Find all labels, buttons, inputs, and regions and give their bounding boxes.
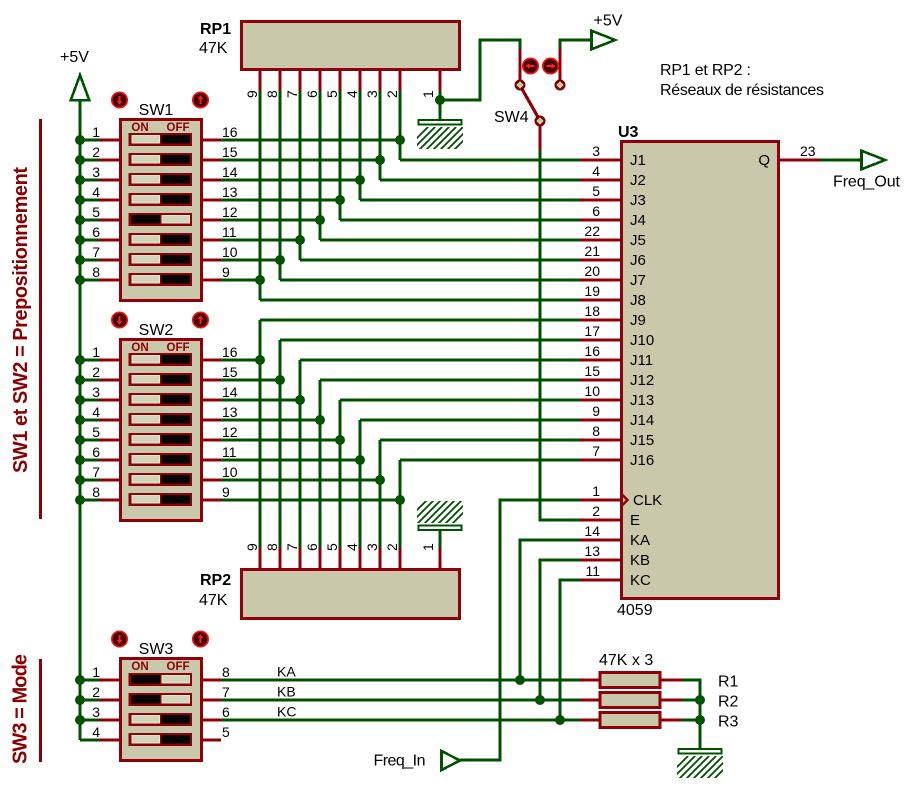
wire J10 horizontal run — [280, 338, 580, 341]
RP2 pin 4 stub — [358, 548, 361, 570]
switch SW3 pin 6 stub — [201, 718, 221, 721]
wire RP1 column x=260 to node — [258, 90, 261, 300]
wire rail to switch pin — [80, 218, 101, 221]
svg-text:17: 17 — [584, 323, 600, 339]
switch SW1 pin 15 stub — [201, 158, 221, 161]
switch SW3 slider 1 (ON) — [129, 673, 193, 686]
wire rail to switch pin — [80, 278, 101, 281]
svg-text:R1: R1 — [718, 674, 739, 691]
junction node J16 / SW2 — [395, 495, 405, 505]
switch SW2 slider 4 (OFF) — [129, 413, 193, 426]
svg-text:J9: J9 — [630, 312, 646, 329]
switch SW4 pole stub — [538, 126, 541, 150]
svg-text:6: 6 — [304, 543, 320, 551]
svg-text:3: 3 — [92, 384, 100, 400]
junction node J12 / SW2 — [315, 415, 325, 425]
wire U3 KB to SW3 KB row — [540, 560, 580, 700]
wire rail to switch pin — [80, 138, 101, 141]
terminal Freq_Out arrow — [862, 151, 886, 170]
svg-text:5: 5 — [92, 424, 100, 440]
svg-text:7: 7 — [222, 684, 230, 700]
wire Freq_In to U3 CLK — [460, 500, 580, 760]
junction on +5V rail y=140 — [75, 135, 85, 145]
svg-text:8: 8 — [592, 423, 600, 439]
svg-text:KC: KC — [630, 572, 651, 589]
RP2 pin 8 stub — [278, 548, 281, 570]
switch SW2 pin 7 stub — [99, 478, 121, 481]
junction node J10 / SW2 — [275, 375, 285, 385]
resistor R2 left pin — [580, 698, 600, 701]
svg-text:KB: KB — [277, 684, 296, 700]
svg-text:OFF: OFF — [167, 122, 190, 134]
svg-text:KA: KA — [630, 532, 650, 549]
wire J6 horizontal run — [300, 258, 580, 261]
wire SW2 row y=460 — [220, 458, 360, 461]
junction on +5V rail y=720 — [75, 715, 85, 725]
U3 pin J16 stub — [580, 458, 620, 461]
junction on +5V rail y=200 — [75, 195, 85, 205]
junction node KC — [555, 715, 565, 725]
wire RP2 column x=300 up run — [298, 360, 301, 548]
svg-text:7: 7 — [92, 464, 100, 480]
switch SW2 pin 6 stub — [99, 458, 121, 461]
svg-text:J16: J16 — [630, 452, 654, 469]
resistor R1 left pin — [580, 678, 600, 681]
switch SW2 slider 8 (OFF) — [129, 493, 193, 506]
RP2 pin 9 stub — [258, 548, 261, 570]
svg-text:5: 5 — [222, 724, 230, 740]
svg-text:11: 11 — [222, 444, 237, 460]
wire rail to switch pin — [80, 398, 101, 401]
wire SW1 row y=140 — [220, 138, 400, 141]
svg-text:J7: J7 — [630, 272, 646, 289]
annotation bracket line SW3 — [39, 659, 42, 762]
svg-text:1: 1 — [92, 124, 100, 140]
wire ground stem — [438, 100, 441, 119]
svg-text:Q: Q — [758, 152, 770, 169]
svg-text:3: 3 — [364, 543, 380, 551]
svg-text:4: 4 — [592, 163, 600, 179]
svg-text:SW3: SW3 — [139, 641, 174, 658]
wire rail to switch pin — [80, 178, 101, 181]
svg-text:ON: ON — [131, 661, 148, 673]
switch SW3 pin 5 stub — [201, 738, 221, 741]
junction on +5V rail y=180 — [75, 175, 85, 185]
switch SW1 slider 3 (OFF) — [129, 173, 193, 186]
svg-text:3: 3 — [92, 704, 100, 720]
svg-text:SW4: SW4 — [494, 109, 529, 126]
wire KB row SW3 to R2 — [221, 698, 580, 701]
junction on +5V rail y=160 — [75, 155, 85, 165]
switch SW1 pin 13 stub — [201, 198, 221, 201]
svg-text:6: 6 — [304, 90, 320, 98]
switch SW3 pin 8 stub — [201, 678, 221, 681]
wire J5 horizontal run — [320, 238, 580, 241]
svg-text:1: 1 — [420, 90, 436, 98]
resistor network RP1 body — [242, 22, 460, 70]
wire RP1 pin1 to node — [438, 90, 441, 100]
svg-text:RP2: RP2 — [200, 572, 231, 589]
wire rail to switch pin — [80, 438, 101, 441]
switch SW2 slider 6 (OFF) — [129, 453, 193, 466]
wire rail to switch pin — [80, 718, 101, 721]
junction on +5V rail y=400 — [75, 395, 85, 405]
svg-text:13: 13 — [584, 543, 600, 559]
U3 CLK clock wedge — [621, 494, 628, 507]
junction node J9 / SW2 — [255, 355, 265, 365]
svg-text:9: 9 — [592, 403, 600, 419]
RP1 pin 6 stub — [318, 70, 321, 91]
switch SW3 pin 3 stub — [99, 718, 121, 721]
junction node R2/ground bus — [695, 695, 705, 705]
wire J15 horizontal run — [380, 438, 580, 441]
svg-text:4: 4 — [92, 724, 100, 740]
switch SW2 pin 15 stub — [201, 378, 221, 381]
U3 pin J9 stub — [580, 318, 620, 321]
switch SW1 actuator button down — [112, 92, 127, 107]
svg-text:SW3 = Mode: SW3 = Mode — [10, 654, 32, 764]
junction node J8 / SW1 — [255, 275, 265, 285]
wire SW2 row y=500 — [220, 498, 400, 501]
RP1 pin 8 stub — [278, 70, 281, 91]
svg-text:47K x 3: 47K x 3 — [599, 652, 653, 669]
svg-text:7: 7 — [284, 90, 300, 98]
U3 pin J13 stub — [580, 398, 620, 401]
U3 pin KB stub — [580, 558, 620, 561]
IC U3 body — [622, 142, 779, 599]
svg-text:U3: U3 — [618, 124, 639, 141]
U3 pin J15 stub — [580, 438, 620, 441]
wire elbow rail to SW3 pin 4 — [80, 738, 100, 741]
RP1 pin 3 stub — [378, 70, 381, 91]
wire rail to switch pin — [80, 258, 101, 261]
power symbol +5V (left rail) — [60, 49, 89, 100]
junction node J14 / SW2 — [355, 455, 365, 465]
svg-text:2: 2 — [92, 684, 100, 700]
junction on +5V rail y=680 — [75, 675, 85, 685]
switch SW1 pin 1 stub — [99, 138, 121, 141]
svg-text:4: 4 — [92, 184, 100, 200]
junction on +5V rail y=420 — [75, 415, 85, 425]
svg-text:2: 2 — [384, 90, 400, 98]
wire SW1 row y=220 — [220, 218, 320, 221]
svg-text:4059: 4059 — [617, 602, 653, 619]
RP1 pin 5 stub — [338, 70, 341, 91]
wire KC row SW3 to R3 — [221, 718, 580, 721]
RP2 pin 3 stub — [378, 548, 381, 570]
wire SW2 row y=480 — [220, 478, 380, 481]
wire RP2 column x=320 up run — [318, 380, 321, 548]
wire RP1 column x=360 to node — [358, 90, 361, 200]
svg-text:J1: J1 — [630, 152, 646, 169]
switch SW2 slider 3 (OFF) — [129, 393, 193, 406]
svg-text:J11: J11 — [630, 352, 653, 369]
junction on +5V rail y=220 — [75, 215, 85, 225]
switch SW1 pin 5 stub — [99, 218, 121, 221]
resistor R3 right pin — [660, 718, 682, 721]
wire RP2 column x=380 up run — [378, 440, 381, 548]
switch SW4 right terminal — [555, 80, 566, 91]
resistor R3 body — [600, 713, 660, 728]
svg-text:J13: J13 — [630, 392, 654, 409]
svg-text:15: 15 — [222, 364, 238, 380]
svg-text:9: 9 — [244, 543, 260, 551]
wire SW1 row y=200 — [220, 198, 340, 201]
wire SW4 right terminal to +5V arrow — [560, 40, 590, 49]
svg-text:16: 16 — [584, 343, 600, 359]
U3 pin J14 stub — [580, 418, 620, 421]
resistor R1 right pin — [660, 678, 682, 681]
svg-text:R2: R2 — [718, 694, 739, 711]
switch SW3 body — [121, 659, 202, 761]
switch SW1 pin 3 stub — [99, 178, 121, 181]
wire J16 horizontal run — [400, 458, 580, 461]
switch SW1 pin 8 stub — [99, 278, 121, 281]
wire SW1 row y=280 — [220, 278, 260, 281]
wire SW1 row y=240 — [220, 238, 300, 241]
wire J1 horizontal run — [400, 158, 580, 161]
svg-text:RP1 et RP2 :: RP1 et RP2 : — [660, 62, 751, 79]
U3 pin J8 stub — [580, 298, 620, 301]
svg-text:8: 8 — [264, 543, 280, 551]
junction node J1 / SW1 — [395, 135, 405, 145]
wire J4 horizontal run — [340, 218, 580, 221]
wire rail to switch pin — [80, 238, 101, 241]
switch SW2 pin 11 stub — [201, 458, 221, 461]
switch SW3 slider 2 (ON) — [129, 693, 193, 706]
junction node J15 / SW2 — [375, 475, 385, 485]
switch SW1 pin 6 stub — [99, 238, 121, 241]
RP2 pin 2 stub — [398, 548, 401, 570]
svg-text:8: 8 — [222, 664, 230, 680]
svg-text:J14: J14 — [630, 412, 654, 429]
resistor R2 right pin — [660, 698, 682, 701]
wire SW2 row y=440 — [220, 438, 340, 441]
switch SW2 actuator button down — [112, 312, 127, 327]
power symbol +5V (SW4) — [592, 13, 623, 50]
RP1 pin 7 stub — [298, 70, 301, 91]
junction on +5V rail y=260 — [75, 255, 85, 265]
svg-text:OFF: OFF — [167, 342, 190, 354]
svg-text:14: 14 — [222, 384, 238, 400]
svg-text:5: 5 — [324, 543, 340, 551]
junction node J13 / SW2 — [335, 435, 345, 445]
switch SW4 left terminal — [515, 80, 526, 91]
switch SW4 left terminal stub — [518, 49, 521, 80]
wire RP2 column x=400 up run — [398, 460, 401, 548]
switch SW4 actuator button right — [543, 58, 558, 73]
switch SW3 pin 4 stub — [99, 738, 121, 741]
RP1 pin 2 stub — [398, 70, 401, 91]
svg-text:2: 2 — [92, 144, 100, 160]
junction on +5V rail y=460 — [75, 455, 85, 465]
wire rail to switch pin — [80, 378, 101, 381]
wire Q to Freq_Out — [820, 158, 861, 161]
switch SW2 pin 14 stub — [201, 398, 221, 401]
switch SW2 slider 2 (OFF) — [129, 373, 193, 386]
switch SW1 pin 11 stub — [201, 238, 221, 241]
wire SW4 pole to U3 E pin — [540, 150, 580, 520]
svg-text:J15: J15 — [630, 432, 654, 449]
svg-text:7: 7 — [284, 543, 300, 551]
RP1 pin 1 stub — [438, 70, 441, 91]
svg-text:16: 16 — [222, 124, 238, 140]
wire RP1 column x=280 to node — [278, 90, 281, 280]
switch SW1 slider 7 (OFF) — [129, 253, 193, 266]
wire R3 to ground bus — [682, 718, 700, 721]
switch SW3 actuator button up — [193, 631, 208, 646]
svg-text:2: 2 — [92, 364, 100, 380]
switch SW2 pin 10 stub — [201, 478, 221, 481]
svg-text:12: 12 — [222, 424, 238, 440]
wire SW1 row y=160 — [220, 158, 380, 161]
junction node J2 / SW1 — [375, 155, 385, 165]
svg-text:SW2: SW2 — [139, 322, 174, 339]
wire RP2 column x=340 up run — [338, 400, 341, 548]
svg-text:6: 6 — [222, 704, 230, 720]
junction on +5V rail y=440 — [75, 435, 85, 445]
junction node RP1 pin 1 — [435, 95, 445, 105]
switch SW1 pin 10 stub — [201, 258, 221, 261]
junction node J11 / SW2 — [295, 395, 305, 405]
wire RP1 column x=400 to node — [398, 90, 401, 160]
junction node KA — [515, 675, 525, 685]
wire J14 horizontal run — [360, 418, 580, 421]
switch SW4 lever — [522, 88, 539, 118]
switch SW2 body — [121, 340, 202, 521]
svg-text:5: 5 — [324, 90, 340, 98]
junction node J5 / SW1 — [315, 215, 325, 225]
svg-text:6: 6 — [592, 203, 600, 219]
switch SW1 slider 2 (OFF) — [129, 153, 193, 166]
wire RP1 column x=340 to node — [338, 90, 341, 220]
wire J7 horizontal run — [280, 278, 580, 281]
svg-text:10: 10 — [584, 383, 600, 399]
switch SW1 actuator button up — [193, 92, 208, 107]
RP1 pin 4 stub — [358, 70, 361, 91]
junction node J6 / SW1 — [295, 235, 305, 245]
wire KA row SW3 to R1 — [221, 678, 580, 681]
svg-text:1: 1 — [92, 664, 100, 680]
svg-text:8: 8 — [264, 90, 280, 98]
U3 pin CLK stub — [580, 498, 620, 501]
svg-text:4: 4 — [344, 543, 360, 551]
switch SW1 pin 7 stub — [99, 258, 121, 261]
U3 pin J7 stub — [580, 278, 620, 281]
wire rail to switch pin — [80, 498, 101, 501]
wire rail to switch pin — [80, 698, 101, 701]
wire rail to switch pin — [80, 198, 101, 201]
junction on +5V rail y=380 — [75, 375, 85, 385]
wire rail to switch pin — [80, 158, 101, 161]
wire J12 horizontal run — [320, 378, 580, 381]
svg-text:2: 2 — [592, 503, 600, 519]
U3 pin KC stub — [580, 578, 620, 581]
wire rail to switch pin — [80, 358, 101, 361]
svg-text:3: 3 — [92, 164, 100, 180]
svg-text:22: 22 — [584, 223, 600, 239]
U3 pin J2 stub — [580, 178, 620, 181]
RP1 pin 9 stub — [258, 70, 261, 91]
switch SW2 pin 2 stub — [99, 378, 121, 381]
wire RP2 column x=260 up run — [258, 320, 261, 548]
svg-text:11: 11 — [222, 224, 237, 240]
wire J2 horizontal run — [380, 178, 580, 181]
svg-text:9: 9 — [222, 484, 230, 500]
wire J13 horizontal run — [340, 398, 580, 401]
switch SW3 pin 1 stub — [99, 678, 121, 681]
wire rail to switch pin — [80, 458, 101, 461]
wire J8 horizontal run — [260, 298, 580, 301]
junction node R3/ground bus — [695, 715, 705, 725]
svg-text:RP1: RP1 — [200, 21, 231, 38]
switch SW3 slider 3 (OFF) — [129, 713, 193, 726]
junction on +5V rail y=500 — [75, 495, 85, 505]
svg-text:7: 7 — [92, 244, 100, 260]
svg-text:6: 6 — [92, 224, 100, 240]
junction node J3 / SW1 — [355, 175, 365, 185]
svg-text:21: 21 — [584, 243, 600, 259]
svg-text:J6: J6 — [630, 252, 646, 269]
wire rail to switch pin — [80, 478, 101, 481]
RP2 pin 7 stub — [298, 548, 301, 570]
switch SW2 pin 4 stub — [99, 418, 121, 421]
svg-text:9: 9 — [244, 90, 260, 98]
svg-text:15: 15 — [222, 144, 238, 160]
U3 pin J3 stub — [580, 198, 620, 201]
svg-text:J4: J4 — [630, 212, 646, 229]
junction on +5V rail y=480 — [75, 475, 85, 485]
switch SW1 slider 1 (OFF) — [129, 133, 193, 146]
svg-text:8: 8 — [92, 264, 100, 280]
wire RP1 column x=380 to node — [378, 90, 381, 180]
wire J3 horizontal run — [360, 198, 580, 201]
junction on +5V rail y=240 — [75, 235, 85, 245]
junction node J4 / SW1 — [335, 195, 345, 205]
resistor network RP2 body — [242, 570, 460, 619]
ground symbol bottom right — [679, 749, 722, 754]
wire RP2 pin 1 up to ground — [438, 530, 441, 548]
U3 pin J6 stub — [580, 258, 620, 261]
U3 pin J4 stub — [580, 218, 620, 221]
resistor R2 body — [600, 693, 660, 708]
switch SW2 slider 7 (OFF) — [129, 473, 193, 486]
switch SW2 pin 12 stub — [201, 438, 221, 441]
junction on +5V rail y=700 — [75, 695, 85, 705]
switch SW4 right terminal stub — [558, 49, 561, 80]
switch SW4 pole terminal — [535, 116, 546, 127]
wire RP2 column x=360 up run — [358, 420, 361, 548]
junction on +5V rail y=360 — [75, 355, 85, 365]
resistor R3 left pin — [580, 718, 600, 721]
wire SW1 row y=260 — [220, 258, 280, 261]
switch SW1 body — [121, 120, 202, 301]
wire SW1 row y=180 — [220, 178, 360, 181]
svg-text:47K: 47K — [199, 592, 228, 609]
switch SW2 slider 5 (OFF) — [129, 433, 193, 446]
wire SW2 row y=420 — [220, 418, 320, 421]
svg-text:Freq_Out: Freq_Out — [833, 174, 901, 191]
svg-text:11: 11 — [585, 563, 600, 579]
svg-text:1: 1 — [92, 344, 100, 360]
switch SW1 pin 2 stub — [99, 158, 121, 161]
switch SW1 slider 5 (ON) — [129, 213, 193, 226]
svg-text:KB: KB — [630, 552, 650, 569]
wire U3 KC to SW3 KC row — [560, 580, 580, 720]
svg-text:J2: J2 — [630, 172, 646, 189]
switch SW2 slider 1 (OFF) — [129, 353, 193, 366]
svg-text:5: 5 — [592, 183, 600, 199]
